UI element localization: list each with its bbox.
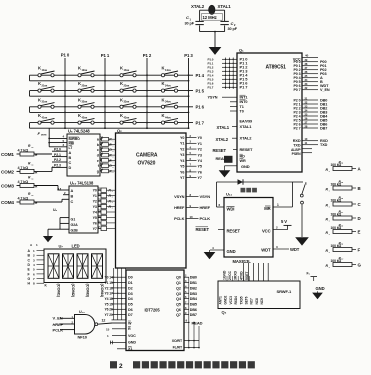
svg-text:4 7 kΩ: 4 7 kΩ (18, 148, 29, 152)
svg-text:RESET: RESET (196, 227, 210, 232)
svg-text:12 MHz: 12 MHz (203, 15, 217, 20)
svg-text:Y7: Y7 (93, 227, 97, 231)
wire crystal bottom (200, 31, 225, 33)
svg-text:TXD: TXD (320, 143, 328, 147)
svg-text:33ᴏɴ: 33ᴏɴ (124, 100, 130, 104)
resistor net Y2 (98, 198, 116, 204)
svg-text:DB2: DB2 (190, 286, 197, 290)
svg-text:GND: GND (241, 164, 250, 169)
resistor R4 segment d (100, 152, 116, 159)
svg-text:P1 3: P1 3 (184, 53, 193, 58)
svg-text:Y5: Y5 (180, 165, 184, 169)
svg-text:V_EN: V_EN (53, 316, 63, 321)
ground (U10/LED) (44, 236, 53, 241)
wire P0.0 to P00 (302, 61, 318, 63)
wire GND stub (110, 341, 126, 343)
wire T stubs (230, 101, 237, 103)
wire X1 stub (117, 348, 126, 350)
resistor 4.7k COM3 (1, 176, 38, 189)
IC U7 LED display (44, 249, 106, 283)
svg-text:ANT1: ANT1 (219, 296, 223, 304)
svg-text:VOC: VOC (128, 334, 136, 338)
svg-text:READ: READ (192, 320, 203, 325)
wire P0.6 to WDT (302, 85, 318, 87)
svg-text:Q5: Q5 (176, 302, 181, 306)
svg-text:3RXD: 3RXD (234, 270, 238, 280)
svg-text:INT1: INT1 (240, 96, 248, 100)
svg-text:P1.7: P1.7 (208, 86, 214, 90)
wire P0.2 to P02 (302, 69, 318, 71)
svg-text:XTAL1: XTAL1 (217, 125, 230, 130)
svg-text:WDT: WDT (261, 248, 271, 253)
svg-text:Y5: Y5 (105, 302, 109, 306)
svg-text:COM2: COM2 (1, 169, 14, 174)
LED digit 4 (92, 254, 103, 278)
switch K41 (38, 113, 55, 124)
node junction (146, 80, 148, 82)
crystal Y1 12MHz (209, 5, 215, 14)
svg-text:15: 15 (109, 281, 113, 285)
svg-text:40: 40 (305, 54, 309, 58)
svg-text:D1: D1 (128, 281, 133, 285)
svg-text:PSEN: PSEN (292, 152, 301, 156)
wire P0.1 to P01 (302, 65, 318, 67)
wire P1 bus rails (225, 58, 227, 90)
svg-text:(COM2): (COM2) (71, 284, 76, 298)
svg-text:P1 2: P1 2 (143, 53, 152, 58)
wire Q6 to DB6 (184, 308, 189, 310)
svg-text:DB0: DB0 (190, 276, 197, 280)
wire keypad column 3 (188, 58, 190, 128)
wire P2.3 input (52, 166, 67, 168)
svg-text:Y7: Y7 (180, 176, 184, 180)
svg-text:Y1: Y1 (93, 194, 97, 198)
svg-text:D: D (358, 216, 361, 221)
svg-text:SRWF-1: SRWF-1 (277, 289, 293, 294)
ground (switch) (296, 238, 308, 245)
wire VCC pin2 (273, 229, 288, 231)
svg-text:X1: X1 (128, 347, 132, 351)
node crystal-gnd junction (214, 31, 216, 33)
svg-text:1GND: 1GND (223, 270, 227, 280)
svg-text:AT89C51: AT89C51 (266, 65, 287, 71)
svg-text:NF10: NF10 (78, 335, 88, 340)
wire camera Y0 (186, 137, 197, 139)
svg-text:P0 7: P0 7 (294, 88, 301, 92)
wire Q4 to DB4 (184, 298, 189, 300)
wire YSYN to INT1 (222, 96, 237, 98)
wire keypad column 0 (64, 58, 66, 128)
switch K44 (161, 113, 178, 124)
IC Q2 CAMERA OV7620 (116, 133, 187, 268)
wire B input (63, 194, 69, 196)
svg-text:4 7 kΩ: 4 7 kΩ (18, 196, 29, 200)
svg-text:P1 7: P1 7 (240, 85, 249, 90)
svg-text:P2.2: P2.2 (54, 158, 61, 162)
wire RESET into MAX (218, 229, 224, 231)
svg-text:5SET: 5SET (245, 271, 249, 280)
svg-text:VCC: VCC (262, 229, 271, 234)
svg-text:Y3: Y3 (105, 292, 109, 296)
IC U11 MAX813L (224, 198, 273, 258)
wire HREF input (60, 323, 75, 325)
wire keypad row 2 upper (30, 90, 194, 92)
switch K21 (38, 81, 55, 92)
svg-text:(COM1): (COM1) (57, 284, 62, 298)
svg-text:NC8: NC8 (255, 298, 259, 305)
svg-text:24ᴏɴ: 24ᴏɴ (165, 83, 171, 87)
svg-text:Q3: Q3 (176, 292, 181, 296)
svg-text:BI/RBO: BI/RBO (69, 137, 81, 141)
node junction (146, 95, 148, 97)
wire DB bus vertical (188, 277, 190, 347)
wire P1.1 stub (222, 62, 237, 64)
svg-text:WR: WR (240, 159, 246, 163)
svg-text:Y3: Y3 (93, 205, 97, 209)
resistor R6 segment f (100, 162, 116, 169)
svg-text:VSYN: VSYN (200, 194, 211, 199)
svg-text:RESET: RESET (240, 147, 253, 152)
resistor R5 segment e (100, 157, 116, 164)
wire camera PCLK (186, 218, 199, 220)
svg-text:XO/RT: XO/RT (172, 339, 183, 343)
switch K13 (120, 66, 137, 77)
wire camera Y3 bus to D3 (112, 292, 127, 294)
svg-text:P2.3: P2.3 (54, 164, 61, 168)
wire crystal right (224, 10, 226, 21)
svg-text:34ᴏɴ: 34ᴏɴ (165, 100, 171, 104)
svg-text:Y4: Y4 (105, 297, 109, 301)
svg-text:Y0: Y0 (93, 189, 97, 193)
wire PCLK input (60, 329, 75, 331)
IC IDT7205 (126, 270, 184, 351)
resistor net Y6 (98, 219, 116, 225)
svg-text:RXD: RXD (293, 139, 301, 143)
wire NAND out to IDT W pin 12 (98, 323, 112, 324)
wire Q3 to DB3 (184, 292, 189, 294)
resistor R₁₇ 100k net D (326, 210, 361, 223)
svg-text:Q₁: Q₁ (239, 48, 244, 53)
wire XTAL1 (232, 125, 237, 127)
svg-text:INT0: INT0 (240, 100, 248, 104)
svg-text:YSYN: YSYN (208, 96, 218, 100)
switch K24 (161, 81, 178, 92)
wire P1.5 stub (222, 78, 237, 80)
svg-text:D3: D3 (128, 292, 133, 296)
svg-text:P1 5: P1 5 (196, 89, 205, 94)
wire keypad row 1 left bracket (29, 75, 31, 81)
svg-text:B: B (69, 156, 72, 160)
svg-text:HREF: HREF (200, 205, 211, 210)
svg-text:31ᴏɴ: 31ᴏɴ (42, 100, 48, 104)
svg-text:Y5: Y5 (93, 216, 97, 220)
svg-text:XTAL2: XTAL2 (216, 137, 229, 142)
svg-text:5 V: 5 V (281, 219, 287, 224)
wire camera Y4 bus to D4 (112, 298, 127, 300)
resistor net Y1 (98, 192, 116, 198)
svg-text:P1 0: P1 0 (61, 53, 70, 58)
svg-text:Q1: Q1 (176, 281, 181, 285)
svg-text:Q2: Q2 (176, 286, 181, 290)
wire P0.3 to P03 (302, 73, 318, 75)
wire PSEN stub (302, 152, 312, 154)
resistor R7 segment g (100, 167, 116, 174)
node junction (104, 95, 106, 97)
wire P2.3 to DB3 (302, 111, 318, 113)
resistor net Y3 (98, 203, 116, 209)
svg-text:2: 2 (119, 363, 123, 370)
svg-text:c: c (97, 148, 99, 152)
resistor R3 segment c (100, 146, 116, 153)
node junction (188, 127, 190, 129)
wire WDT pin3 (273, 248, 289, 250)
svg-text:Y7: Y7 (198, 176, 202, 180)
svg-text:P2 7: P2 7 (294, 127, 301, 131)
svg-text:PCLK: PCLK (200, 216, 211, 221)
svg-text:GND: GND (316, 286, 325, 291)
svg-text:F: F (28, 272, 30, 276)
svg-text:Y0: Y0 (180, 136, 184, 140)
svg-text:FL/RT: FL/RT (173, 346, 183, 350)
wire keypad row 4 lower (30, 127, 189, 129)
wire camera Y4 (186, 159, 197, 161)
wire R pin stub (112, 328, 126, 330)
svg-text:ALE/P: ALE/P (291, 148, 301, 152)
wire camera Y2 (186, 148, 197, 150)
wire keypad row 3 upper (30, 106, 194, 108)
wire keypad column 2 (146, 58, 148, 128)
wire FL/RT stub (184, 347, 199, 349)
wire P1.6 stub (222, 82, 237, 84)
svg-text:ᴅᴏʏᴇ: ᴅᴏʏᴇ (41, 134, 47, 137)
wire camera HREF (186, 207, 199, 209)
svg-text:20: 20 (109, 308, 113, 312)
svg-text:U₇: U₇ (59, 244, 64, 249)
svg-text:Y2: Y2 (93, 200, 97, 204)
svg-text:F₂: F₂ (307, 272, 311, 276)
svg-text:₁ₓ: ₁ₓ (31, 178, 33, 181)
wire V_EN input (60, 317, 75, 319)
svg-text:A: A (69, 151, 72, 155)
svg-text:Y1: Y1 (180, 142, 184, 146)
svg-text:T0: T0 (240, 109, 244, 113)
svg-text:12: 12 (102, 319, 106, 323)
svg-text:B: B (358, 186, 361, 191)
wire keypad row 3 lower (30, 111, 189, 113)
wire G1 G2A G2B to gnd (60, 217, 69, 219)
svg-text:R: R (128, 327, 131, 331)
svg-text:P1 6: P1 6 (196, 105, 205, 110)
switch S1 reset (293, 181, 304, 183)
svg-text:14: 14 (109, 276, 113, 280)
svg-text:D7: D7 (128, 313, 133, 317)
wire F vertical to U5 (48, 128, 50, 147)
wire GND pin down (225, 165, 238, 167)
svg-text:CAMERA: CAMERA (136, 153, 158, 159)
wire VOC stub (112, 335, 126, 337)
svg-text:Q0: Q0 (176, 276, 181, 280)
svg-text:DB6: DB6 (190, 308, 197, 312)
svg-text:Y2: Y2 (198, 148, 202, 152)
svg-text:G1: G1 (71, 218, 76, 222)
svg-text:Y2: Y2 (180, 147, 184, 151)
svg-text:P2.1: P2.1 (54, 153, 61, 157)
svg-text:Y1: Y1 (105, 281, 109, 285)
svg-text:Y1: Y1 (198, 142, 202, 146)
wire Q7 to DB7 (184, 314, 189, 316)
wire keypad row 2 lower (30, 95, 189, 97)
svg-text:30 pF: 30 pF (185, 22, 195, 26)
resistor net Y0 (98, 187, 116, 193)
svg-text:2VCC: 2VCC (228, 270, 232, 280)
svg-text:21ᴏɴ: 21ᴏɴ (42, 83, 48, 87)
svg-text:Y2: Y2 (105, 286, 109, 290)
svg-text:D: D (69, 166, 72, 170)
label diode 二极管 (241, 188, 246, 193)
svg-text:TXD5: TXD5 (239, 296, 243, 304)
svg-text:4 7 kΩ: 4 7 kΩ (18, 166, 29, 170)
svg-text:Q₂: Q₂ (117, 128, 122, 133)
wire keypad row 4 upper (30, 122, 194, 124)
wire GND pin4 (210, 249, 224, 251)
svg-text:DB3: DB3 (190, 292, 197, 296)
IC U5 74LS248 (67, 134, 100, 176)
wire P2.0 to DB0 (302, 99, 318, 101)
svg-text:11ᴏɴ: 11ᴏɴ (42, 68, 48, 72)
wire P2.6 to DB6 (302, 123, 318, 125)
wire P2.2 to DB2 (302, 107, 318, 109)
wire COM2 to U5 (34, 170, 52, 172)
wire Q2 to DB2 (184, 287, 189, 289)
svg-text:Y6: Y6 (105, 308, 109, 312)
wire keypad row 2 left bracket (29, 91, 31, 97)
svg-text:43ᴏɴ: 43ᴏɴ (124, 115, 130, 119)
svg-text:COM4: COM4 (1, 200, 14, 205)
wire P2.7 to DB7 (302, 127, 318, 129)
resistor 4.7k COM1 (1, 144, 38, 157)
resistor R₂₀ 100k net G (326, 256, 362, 269)
gate U13 NF10 (75, 310, 98, 339)
wire Q1 to DB1 (184, 282, 189, 284)
svg-text:XTAL1: XTAL1 (218, 4, 232, 9)
wire Q0 to DB0 (184, 276, 189, 278)
wire P2.0 input (52, 150, 67, 152)
switch K42 (78, 113, 95, 124)
svg-text:(COM3): (COM3) (86, 284, 91, 298)
svg-text:RESET: RESET (213, 148, 227, 153)
svg-text:Y3: Y3 (198, 153, 202, 157)
svg-text:Y4: Y4 (93, 210, 97, 214)
svg-text:E: E (358, 230, 361, 235)
svg-text:P1 7: P1 7 (196, 121, 205, 126)
svg-text:Y7: Y7 (105, 313, 109, 317)
wire Q5 to DB5 (184, 303, 189, 305)
svg-text:PCLK: PCLK (174, 216, 184, 221)
svg-text:D0: D0 (128, 276, 133, 280)
svg-text:NC7: NC7 (250, 298, 254, 305)
LED digit 3 (77, 254, 88, 278)
node junction (146, 127, 148, 129)
svg-text:U₅ 74LS248: U₅ 74LS248 (68, 129, 90, 134)
resistor R1 segment a (100, 136, 116, 143)
wire crystal top (200, 9, 225, 11)
svg-text:PCLK: PCLK (53, 328, 64, 333)
svg-text:OV7620: OV7620 (138, 161, 156, 167)
svg-text:16: 16 (109, 286, 113, 290)
svg-text:13ᴏɴ: 13ᴏɴ (124, 68, 130, 72)
node junction (146, 112, 148, 114)
svg-text:Y3: Y3 (180, 153, 184, 157)
node junction (64, 80, 66, 82)
svg-text:XTAL2: XTAL2 (240, 136, 253, 141)
svg-text:GND: GND (128, 341, 136, 345)
svg-text:17: 17 (109, 292, 113, 296)
svg-text:g: g (97, 169, 99, 173)
wire XTAL2 (232, 137, 237, 139)
wire camera Y1 bus to D1 (112, 282, 127, 284)
LED digit 1 (48, 254, 59, 278)
svg-text:XTAL2: XTAL2 (191, 4, 205, 9)
node junction (64, 95, 66, 97)
svg-text:U₁₃: U₁₃ (79, 310, 85, 314)
svg-text:RD: RD (240, 154, 246, 158)
switch K14 (161, 66, 178, 77)
svg-text:Q₃: Q₃ (222, 310, 227, 315)
wire keypad row 3 left bracket (29, 107, 31, 113)
svg-text:Y0: Y0 (105, 276, 109, 280)
svg-text:V_EN: V_EN (320, 88, 330, 92)
switch K33 (120, 97, 137, 108)
svg-text:e: e (97, 159, 99, 163)
svg-text:14ᴏɴ: 14ᴏɴ (165, 68, 171, 72)
wire crystal left (199, 10, 201, 21)
svg-text:F: F (358, 248, 361, 253)
svg-text:Y6: Y6 (93, 221, 97, 225)
wire camera Y0 bus to D0 (112, 276, 127, 278)
svg-text:₁ₓ: ₁ₓ (31, 194, 33, 197)
wire P2.2 input (52, 161, 67, 163)
resistor net Y7 (98, 225, 116, 231)
resistor R₁₈ 100k net E (326, 223, 361, 236)
resistor 4.7k COM2 (1, 162, 38, 175)
svg-text:19: 19 (109, 302, 113, 306)
wire camera Y5 bus to D5 (112, 303, 127, 305)
IC Q3 SRWF-1 (218, 281, 300, 309)
wire camera Y1 (186, 142, 197, 144)
wire keypad column 1 (104, 58, 106, 128)
resistor 4.7k COM4 (1, 192, 38, 205)
svg-text:U₉: U₉ (53, 208, 57, 212)
node junction (64, 127, 66, 129)
svg-text:D5: D5 (128, 302, 133, 306)
wire COM1 to U5 (34, 153, 52, 155)
switch K22 (78, 81, 95, 92)
svg-text:D6: D6 (128, 308, 133, 312)
wire COM3 to U10 (34, 185, 58, 187)
svg-text:4 7 kΩ: 4 7 kΩ (18, 180, 29, 184)
wire RESET (233, 148, 237, 150)
wire P2.4 to DB4 (302, 115, 318, 117)
svg-text:XTAL1: XTAL1 (240, 124, 253, 129)
node junction (188, 80, 190, 82)
svg-text:18: 18 (109, 297, 113, 301)
wire MAX to SRWF bus (243, 263, 245, 281)
svg-text:NC9: NC9 (260, 298, 264, 305)
resistor R2 segment b (100, 141, 116, 148)
svg-text:D2: D2 (128, 286, 133, 290)
svg-text:C: C (69, 161, 72, 165)
svg-text:42ᴏɴ: 42ᴏɴ (82, 115, 88, 119)
